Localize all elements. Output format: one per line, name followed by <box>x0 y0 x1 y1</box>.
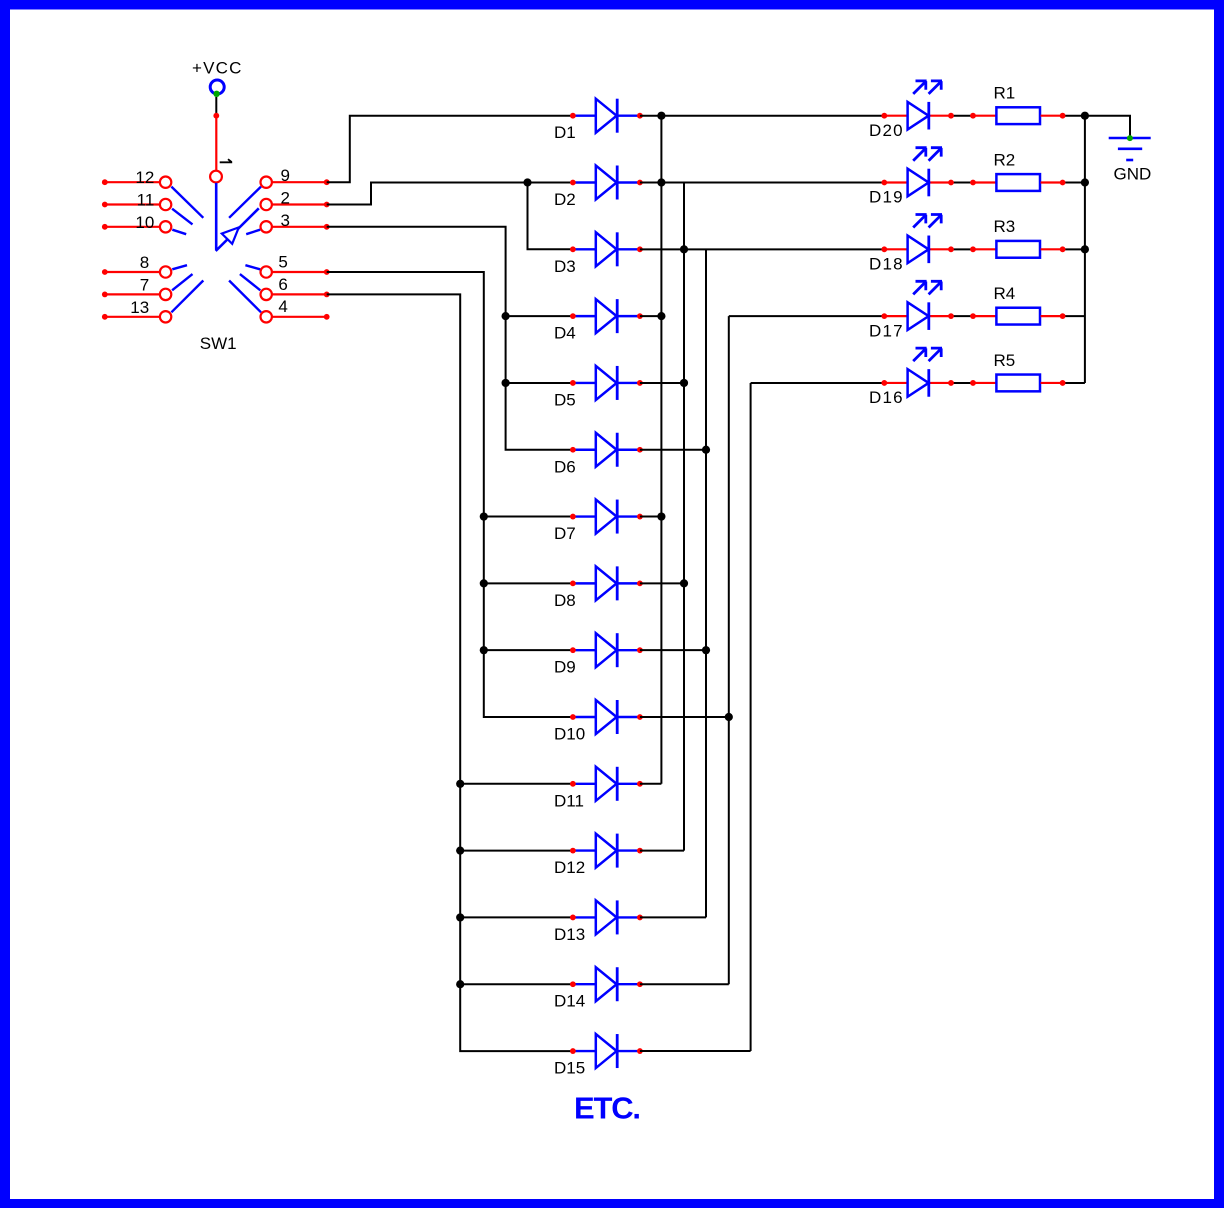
diode D7 <box>554 500 643 544</box>
svg-text:D12: D12 <box>554 858 585 877</box>
SW1 contact 10 <box>102 213 171 233</box>
svg-text:SW1: SW1 <box>200 334 237 353</box>
wire D4 cathode <box>640 315 662 317</box>
node R4 input terminal <box>970 313 976 319</box>
resistor R5 <box>974 351 1063 392</box>
wire bus 1 <box>660 116 662 784</box>
wire pin 3 to D6 <box>327 227 573 450</box>
node bus junction D4 <box>657 312 665 320</box>
wire ground bus <box>1084 116 1086 383</box>
node LED D19 cathode terminal <box>948 180 954 186</box>
wire branch to D3 <box>528 183 573 250</box>
SW1 spoke 7 <box>172 274 192 290</box>
switch SW1 pin 1 circle <box>210 171 222 183</box>
node R3 input terminal <box>970 246 976 252</box>
wire D12 cathode <box>640 850 684 852</box>
svg-text:R4: R4 <box>994 284 1016 303</box>
SW1 contact 3 <box>261 211 330 233</box>
wire branch to D4 <box>506 315 573 317</box>
SW1 contact 2 <box>261 189 330 211</box>
SW1 contact 8 <box>102 253 171 277</box>
LED D17 <box>869 281 951 340</box>
SW1 spoke 8 <box>172 265 187 269</box>
svg-text:D7: D7 <box>554 524 576 543</box>
wire LED D19 to R2 <box>951 182 973 184</box>
wire bus5 to LED D16 <box>751 382 885 384</box>
pin number 1 (rotated digit) <box>220 159 233 162</box>
node D11 anode junction <box>456 780 464 788</box>
svg-text:2: 2 <box>281 189 290 208</box>
node R5 input terminal <box>970 380 976 386</box>
svg-text:9: 9 <box>281 166 290 185</box>
svg-text:D5: D5 <box>554 390 576 409</box>
wire R1 to ground bus <box>1061 115 1085 117</box>
LED D16 <box>869 348 951 407</box>
wire to GND symbol <box>1085 116 1130 137</box>
wire D5 cathode <box>640 382 684 384</box>
SW1 spoke 5 <box>245 265 260 269</box>
node D14 anode junction <box>456 980 464 988</box>
SW1 contact 11 <box>102 191 171 211</box>
node VCC junction <box>213 113 219 119</box>
SW1 spoke 3 <box>246 230 260 235</box>
svg-text:D15: D15 <box>554 1059 585 1078</box>
SW1 contact 7 <box>102 276 171 300</box>
diode D14 <box>554 967 643 1011</box>
wire VCC stub <box>215 97 217 116</box>
SW1 spoke 4 <box>229 281 261 313</box>
wire branch to D14 <box>460 983 573 985</box>
node R4 output <box>1060 313 1066 319</box>
svg-text:D14: D14 <box>554 992 585 1011</box>
diode D8 <box>554 566 643 610</box>
svg-text:10: 10 <box>135 213 154 232</box>
wire branch to D13 <box>460 916 573 918</box>
SW1 contact 13 <box>102 298 171 322</box>
SW1 wiper <box>216 183 259 251</box>
resistor R3 <box>974 217 1063 258</box>
wire D8 cathode <box>640 582 684 584</box>
node bus junction D1 <box>657 112 665 120</box>
SW1 contact 4 <box>261 297 330 322</box>
svg-text:6: 6 <box>278 275 287 294</box>
node R2 input terminal <box>970 180 976 186</box>
svg-text:R1: R1 <box>994 84 1016 103</box>
wire D7 cathode <box>640 516 662 518</box>
node D13 anode junction <box>456 913 464 921</box>
SW1 spoke 12 <box>171 187 203 218</box>
node bus junction D9 <box>702 646 710 654</box>
svg-text:D3: D3 <box>554 257 576 276</box>
node R2 output <box>1060 180 1066 186</box>
SW1 spoke 11 <box>172 209 192 225</box>
node bus junction D8 <box>680 579 688 587</box>
svg-text:+VCC: +VCC <box>192 59 243 78</box>
wire D1 cathode to LED D20 <box>640 115 884 117</box>
diode D15 <box>554 1034 643 1078</box>
node bus junction D2 <box>657 178 665 186</box>
SW1 spoke 10 <box>172 230 186 235</box>
svg-text:3: 3 <box>281 211 290 230</box>
wire bus 3 <box>705 249 707 917</box>
svg-text:7: 7 <box>140 276 149 295</box>
svg-text:D19: D19 <box>869 188 904 207</box>
svg-text:D8: D8 <box>554 591 576 610</box>
node ground bus junction 3 <box>1081 245 1089 253</box>
wire LED D18 to R3 <box>951 248 973 250</box>
svg-text:D9: D9 <box>554 658 576 677</box>
wire D6 cathode <box>640 449 706 451</box>
LED D19 <box>869 148 951 207</box>
svg-text:D18: D18 <box>869 255 904 274</box>
svg-text:D17: D17 <box>869 321 904 340</box>
wire LED D17 to R4 <box>951 315 973 317</box>
wire branch to D8 <box>484 582 573 584</box>
diode D11 <box>554 767 643 811</box>
wire LED D20 to R1 <box>951 115 973 117</box>
svg-text:D20: D20 <box>869 121 904 140</box>
SW1 contact 5 <box>261 252 330 277</box>
diode D6 <box>554 433 643 477</box>
wire D13 cathode <box>640 916 706 918</box>
wire bus 4 <box>728 316 730 984</box>
svg-text:12: 12 <box>135 168 154 187</box>
LED D20 <box>869 81 951 140</box>
wire bus 2 <box>683 183 685 851</box>
diode D1 <box>554 99 643 143</box>
wire R3 to ground bus <box>1061 248 1085 250</box>
svg-text:D13: D13 <box>554 925 585 944</box>
diode D5 <box>554 366 643 410</box>
resistor R4 <box>974 284 1063 325</box>
node LED D18 cathode terminal <box>948 246 954 252</box>
wire bus4 to LED D17 <box>729 315 885 317</box>
wire branch to D9 <box>484 649 573 651</box>
wire LED D16 to R5 <box>951 382 973 384</box>
node bus junction D3 <box>680 245 688 253</box>
wire D15 cathode <box>640 1050 751 1052</box>
node ground bus junction 1 <box>1081 112 1089 120</box>
wire pin 9 to D1 <box>327 116 573 183</box>
wire R4 to ground bus <box>1061 315 1085 317</box>
node bus junction D6 <box>702 446 710 454</box>
svg-text:GND: GND <box>1114 165 1152 184</box>
diode D4 <box>554 299 643 343</box>
svg-text:R3: R3 <box>994 217 1016 236</box>
svg-text:5: 5 <box>278 252 287 271</box>
node LED D16 cathode terminal <box>948 380 954 386</box>
resistor R1 <box>974 84 1063 125</box>
node D4 anode junction <box>502 312 510 320</box>
wire D11 cathode <box>640 783 662 785</box>
wire pin 2 to D2 <box>327 183 573 205</box>
diode D2 <box>554 166 643 210</box>
node LED D20 cathode terminal <box>948 113 954 119</box>
wire bus 5 <box>750 383 752 1051</box>
svg-text:D10: D10 <box>554 724 585 743</box>
wire pin 5 to D10 <box>327 272 573 717</box>
ground GND symbol <box>1109 135 1152 183</box>
VCC terminal circle <box>210 80 224 94</box>
wire VCC to SW1 pin 1 <box>215 116 217 171</box>
svg-text:D11: D11 <box>554 791 584 810</box>
wire pin 6 to D15 <box>327 294 573 1051</box>
wire branch to D5 <box>506 382 573 384</box>
wire D14 cathode <box>640 983 729 985</box>
node R1 output <box>1060 113 1066 119</box>
wire D2 cathode to LED D19 <box>640 182 884 184</box>
wire D3 cathode to LED D18 <box>640 248 884 250</box>
SW1 spoke 13 <box>171 281 203 313</box>
wire R5 to ground bus <box>1061 382 1085 384</box>
wire branch to D7 <box>484 516 573 518</box>
svg-text:8: 8 <box>140 253 149 272</box>
node ground bus junction 2 <box>1081 178 1089 186</box>
node R5 output <box>1060 380 1066 386</box>
wire D9 cathode <box>640 649 706 651</box>
svg-text:D6: D6 <box>554 457 576 476</box>
svg-text:ETC.: ETC. <box>574 1091 640 1126</box>
wire branch to D11 <box>460 783 573 785</box>
node D7 anode junction <box>480 512 488 520</box>
node bus junction D10 <box>725 713 733 721</box>
SW1 spoke 9 <box>229 187 261 218</box>
SW1 contact 12 <box>102 168 171 188</box>
svg-text:R2: R2 <box>994 150 1016 169</box>
wire branch to D12 <box>460 850 573 852</box>
svg-text:R5: R5 <box>994 351 1016 370</box>
SW1 spoke 6 <box>240 274 260 290</box>
diode D3 <box>554 232 643 276</box>
resistor R2 <box>974 150 1063 191</box>
node D2 anode junction <box>523 178 531 186</box>
node R3 output <box>1060 246 1066 252</box>
LED D18 <box>869 215 951 274</box>
svg-text:D4: D4 <box>554 324 576 343</box>
node R1 input terminal <box>970 113 976 119</box>
svg-text:11: 11 <box>137 191 155 210</box>
diode D10 <box>554 700 643 744</box>
svg-text:D16: D16 <box>869 388 904 407</box>
diode D9 <box>554 633 643 677</box>
wire R2 to ground bus <box>1061 182 1085 184</box>
diode D13 <box>554 900 643 944</box>
node LED D17 cathode terminal <box>948 313 954 319</box>
wire D10 cathode <box>640 716 729 718</box>
SW1 contact 9 <box>261 166 330 188</box>
node bus junction D7 <box>657 512 665 520</box>
svg-text:13: 13 <box>130 298 149 317</box>
node D12 anode junction <box>456 847 464 855</box>
svg-text:D1: D1 <box>554 123 576 142</box>
SW1 contact 6 <box>261 275 330 300</box>
node bus junction D5 <box>680 379 688 387</box>
node D9 anode junction <box>480 646 488 654</box>
svg-text:D2: D2 <box>554 190 576 209</box>
svg-text:4: 4 <box>278 297 287 316</box>
node D8 anode junction <box>480 579 488 587</box>
node D5 anode junction <box>502 379 510 387</box>
diode D12 <box>554 834 643 878</box>
VCC green dot <box>213 91 219 97</box>
